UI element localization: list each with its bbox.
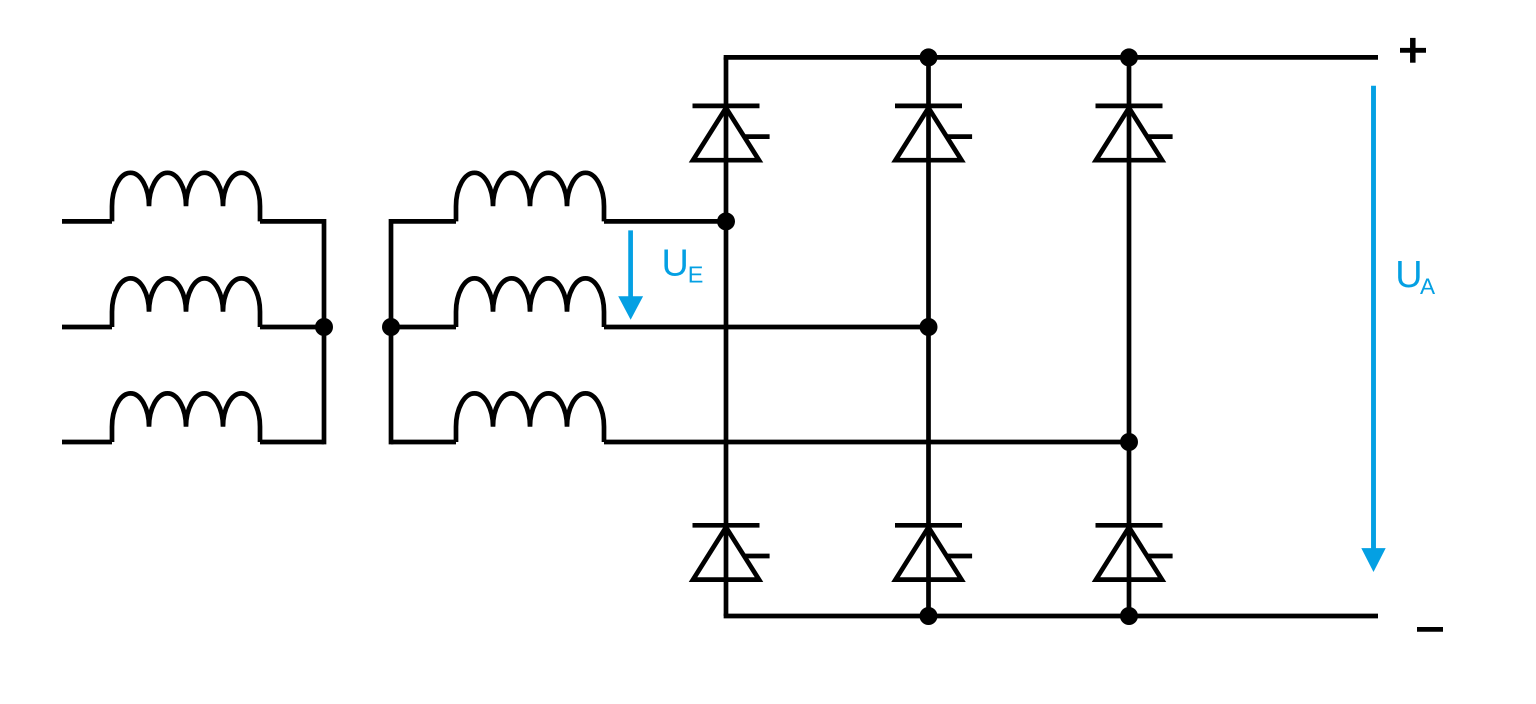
diode V3 top leg 2 xyxy=(895,106,972,160)
wire secondary L2 to bridge leg 2 xyxy=(604,325,929,330)
node phase 3 to bridge xyxy=(1120,433,1138,451)
inductor secondary winding L2 xyxy=(456,278,604,327)
diode V6 bottom leg 2 xyxy=(895,525,972,579)
node secondary star point xyxy=(382,318,400,336)
diode V5 top leg 3 xyxy=(1096,106,1173,160)
wire primary star vertical xyxy=(322,219,327,444)
label UA xyxy=(1395,254,1436,299)
inductor secondary winding L1 xyxy=(456,173,604,222)
wire secondary L1 to bridge leg 1 xyxy=(604,219,726,224)
inductor primary winding L2 xyxy=(112,278,260,327)
wire primary L2 to star point xyxy=(260,325,324,330)
node top bus leg 3 xyxy=(1120,48,1138,66)
svg-text:U: U xyxy=(662,242,689,284)
wire secondary L3 lead-in xyxy=(391,440,456,445)
node phase 1 to bridge xyxy=(717,212,735,230)
label minus terminal xyxy=(1417,627,1443,632)
wire bridge leg 3 vertical xyxy=(1127,57,1132,616)
node bottom bus leg 2 xyxy=(920,607,938,625)
svg-text:A: A xyxy=(1420,274,1436,299)
wire secondary L3 to bridge leg 3 xyxy=(604,440,1129,445)
wire primary L1 to star point xyxy=(260,219,324,224)
wire negative DC bus xyxy=(724,614,1378,619)
label plus terminal xyxy=(1400,38,1426,63)
wire positive DC bus xyxy=(724,55,1378,60)
svg-text:U: U xyxy=(1395,254,1422,296)
diode V1 top leg 1 xyxy=(693,106,770,160)
inductor secondary winding L3 xyxy=(456,393,604,442)
arrow UA output voltage xyxy=(1361,86,1385,572)
label UE xyxy=(662,242,704,287)
node bottom bus leg 3 xyxy=(1120,607,1138,625)
wire primary L3 to star point xyxy=(260,440,324,445)
wire primary L3 lead-in xyxy=(62,440,112,445)
wire secondary L2 lead-in xyxy=(391,325,456,330)
wire primary L1 lead-in xyxy=(62,219,112,224)
inductor primary winding L3 xyxy=(112,393,260,442)
node primary star point xyxy=(315,318,333,336)
node phase 2 to bridge xyxy=(920,318,938,336)
diode V4 bottom leg 1 xyxy=(693,525,770,579)
inductor primary winding L1 xyxy=(112,173,260,222)
node top bus leg 2 xyxy=(920,48,938,66)
wire primary L2 lead-in xyxy=(62,325,112,330)
wire secondary L1 lead-in xyxy=(391,219,456,224)
wire secondary star vertical xyxy=(389,219,394,444)
diode V2 bottom leg 3 xyxy=(1096,525,1173,579)
svg-text:E: E xyxy=(688,262,704,288)
wire bridge leg 1 vertical xyxy=(724,57,729,616)
arrow UE input voltage xyxy=(618,230,643,319)
wire bridge leg 2 vertical xyxy=(926,57,931,616)
